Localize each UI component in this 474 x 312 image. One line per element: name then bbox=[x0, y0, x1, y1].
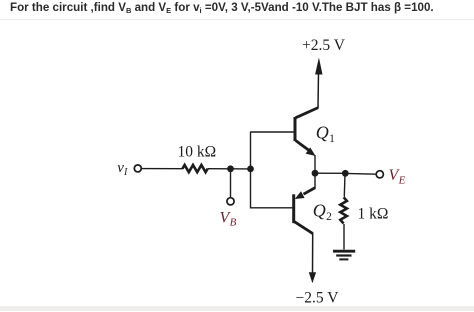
wire: node B down to resistor R2 bbox=[343, 173, 346, 196]
svg-text:10 kΩ: 10 kΩ bbox=[178, 143, 217, 160]
wire: Q2 collector down to -2.5V arrow bbox=[312, 233, 314, 274]
wire: supply to Q1 collector bbox=[317, 72, 320, 108]
wire: VB stub bbox=[230, 169, 232, 198]
svg-text:vI: vI bbox=[117, 160, 128, 178]
wire: bus to Q1 base bbox=[251, 131, 295, 133]
terminal VE (open circle) bbox=[376, 171, 383, 178]
svg-text:VE: VE bbox=[389, 167, 406, 187]
node A (emitter junction) bbox=[312, 170, 319, 177]
node: VB tap junction bbox=[227, 165, 234, 172]
bottom gray strip bbox=[0, 306, 474, 311]
ground bbox=[333, 251, 355, 259]
svg-text:Q1: Q1 bbox=[316, 123, 335, 145]
node: bus junction bbox=[247, 166, 254, 173]
resistor R1 10 kOhm bbox=[183, 165, 208, 172]
terminal VB (open circle) bbox=[227, 198, 234, 205]
svg-text:1 kΩ: 1 kΩ bbox=[358, 206, 389, 223]
wire: resistor R2 to ground bbox=[343, 224, 345, 250]
node B (output junction) bbox=[342, 170, 349, 177]
transistor Q1 (NPN) bbox=[295, 108, 318, 156]
svg-text:Q2: Q2 bbox=[313, 200, 332, 222]
problem statement text bbox=[10, 1, 434, 14]
resistor R2 1 kOhm bbox=[340, 197, 347, 223]
wire: resistor R1 to bus bbox=[208, 168, 251, 170]
wire: node A down to Q2 emitter bbox=[314, 173, 316, 188]
-2.5 V supply arrow (down) bbox=[309, 272, 316, 283]
svg-text:+2.5 V: +2.5 V bbox=[302, 37, 346, 54]
faint rule under heading bbox=[0, 19, 474, 20]
svg-text:−2.5 V: −2.5 V bbox=[296, 289, 340, 306]
terminal vI (open circle) bbox=[134, 165, 141, 172]
wire: node B to VE terminal bbox=[345, 172, 376, 175]
wire: node A to node B bbox=[315, 172, 345, 174]
svg-text:VB: VB bbox=[220, 210, 237, 229]
transistor Q2 (PNP) bbox=[294, 188, 316, 234]
+2.5 V supply arrow bbox=[315, 58, 322, 75]
wire: vI to resistor R1 bbox=[142, 168, 184, 170]
wire: base bus (vertical) bbox=[250, 132, 252, 209]
wire: bus to Q2 base bbox=[251, 207, 294, 209]
wire: Q1 emitter down to node A bbox=[314, 155, 316, 173]
